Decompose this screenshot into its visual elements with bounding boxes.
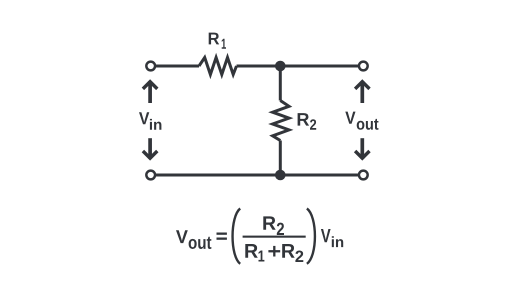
- formula equals sign: [217, 233, 227, 235]
- formula fraction bar: [243, 236, 306, 238]
- arrow Vout up: [354, 79, 371, 103]
- terminal top-right: [359, 62, 368, 71]
- formula numerator "R": [263, 216, 275, 229]
- formula left parenthesis: [233, 209, 241, 264]
- formula denominator first "R": [245, 244, 257, 258]
- formula Vin "V": [321, 229, 331, 242]
- arrow Vin up: [142, 79, 159, 103]
- formula denominator subscript "1": [259, 251, 265, 262]
- resistor R1: [199, 58, 237, 75]
- formula Vout subscript "out": [189, 237, 212, 249]
- terminal top-left: [146, 62, 155, 71]
- wire bottom rail: [156, 174, 359, 177]
- label R1 subscript "1": [222, 39, 226, 49]
- label Vin "V": [139, 112, 149, 124]
- formula denominator plus sign: [268, 250, 280, 252]
- wire R2 top lead: [279, 66, 282, 101]
- label Vout subscript "out": [357, 119, 379, 130]
- label Vout "V": [345, 112, 355, 124]
- formula denominator second "R": [282, 244, 295, 258]
- resistor R2: [273, 101, 289, 141]
- node top junction: [275, 61, 286, 72]
- terminal bottom-left: [146, 171, 155, 180]
- label R2 "R": [298, 113, 310, 126]
- formula Vout "V": [176, 230, 188, 243]
- terminal bottom-right: [359, 171, 368, 180]
- wire top-right segment: [237, 65, 359, 68]
- label R2 subscript "2": [310, 119, 316, 129]
- formula numerator subscript "2": [277, 223, 284, 235]
- arrow Vin down: [142, 138, 159, 160]
- label Vin subscript "in": [150, 119, 162, 130]
- wire top-left segment: [156, 65, 200, 68]
- arrow Vout down: [354, 138, 371, 160]
- formula right parenthesis: [307, 209, 315, 264]
- wire R2 bottom lead: [279, 141, 282, 176]
- label R1 "R": [209, 33, 220, 45]
- node bottom junction: [275, 170, 286, 181]
- formula Vin subscript "in": [332, 236, 343, 247]
- formula denominator subscript "2": [295, 251, 303, 263]
